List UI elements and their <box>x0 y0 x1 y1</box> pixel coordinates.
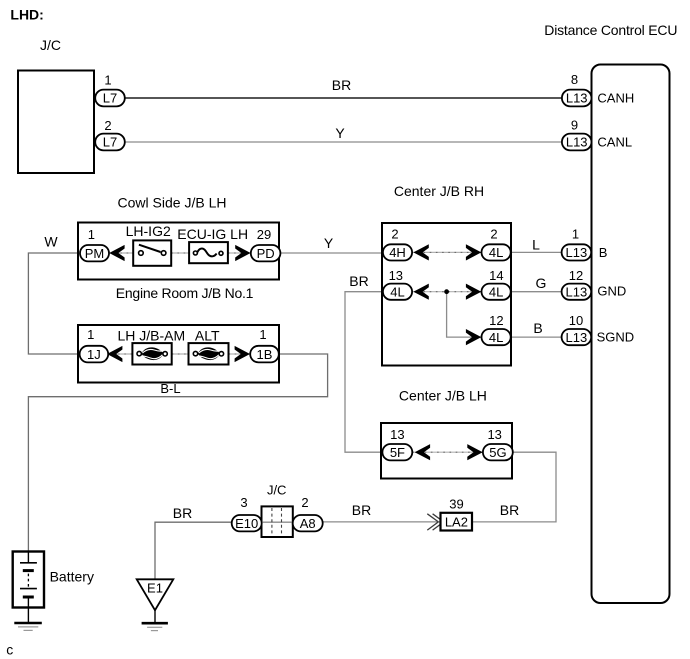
svg-text:E10: E10 <box>235 516 258 531</box>
connector oval L7 pin 2 <box>95 134 125 151</box>
wire G (4L-14 to L13-12 GND) <box>510 291 563 293</box>
svg-text:CANL: CANL <box>597 135 632 150</box>
svg-text:13: 13 <box>389 268 403 283</box>
wire branch to 4L-12 <box>447 292 483 337</box>
svg-text:L: L <box>532 237 540 253</box>
arrow right row2 Center J/B RH <box>466 284 481 300</box>
svg-text:13: 13 <box>390 427 404 442</box>
connector oval L13 pin 9 <box>562 134 592 151</box>
connector oval 1J <box>80 346 109 363</box>
arrow left Center J/B LH <box>415 444 430 460</box>
connector oval A8 <box>293 515 323 531</box>
connector oval 5F <box>382 444 412 460</box>
svg-text:4L: 4L <box>489 285 503 300</box>
svg-text:12: 12 <box>489 313 503 328</box>
connector oval 4H pin 2 <box>383 244 412 260</box>
dashed wire inside Center J/B RH row 1 <box>411 251 482 253</box>
connector oval L13 pin 12 <box>562 284 592 300</box>
box Distance Control ECU <box>592 65 670 604</box>
svg-text:PD: PD <box>257 246 275 261</box>
wire BR (L7-1 to L13-8 CANH) <box>124 97 562 99</box>
wire Y (L7-2 to L13-9 CANL) <box>124 141 562 143</box>
svg-text:B-L: B-L <box>160 381 180 396</box>
svg-text:LHD:: LHD: <box>10 7 43 23</box>
box J/C top left <box>18 71 94 174</box>
svg-text:4L: 4L <box>390 285 404 300</box>
connector oval 4L pin 2 <box>482 244 511 260</box>
svg-text:L13: L13 <box>566 135 588 150</box>
wire (A8 to E10 through J/C) <box>233 521 322 523</box>
switch symbol LH-IG2 <box>133 240 171 265</box>
svg-text:J/C: J/C <box>40 37 61 53</box>
arrow right row1 Center J/B RH <box>466 244 481 260</box>
box Cowl Side J/B LH <box>78 223 279 280</box>
wire B-L (1B loop to battery) <box>28 354 327 552</box>
svg-text:1: 1 <box>259 327 266 342</box>
wire BR (4L-13 to 5F) <box>345 292 384 453</box>
svg-text:LA2: LA2 <box>445 515 468 530</box>
arrow left row2 Center J/B RH <box>413 284 428 300</box>
svg-text:9: 9 <box>571 118 578 133</box>
svg-text:2: 2 <box>391 227 398 242</box>
svg-text:c: c <box>6 641 13 657</box>
svg-text:BR: BR <box>500 502 519 518</box>
svg-text:12: 12 <box>569 268 583 283</box>
arrow right Center J/B LH <box>467 444 482 460</box>
connector oval L13 pin 8 <box>562 90 592 107</box>
svg-text:BR: BR <box>349 273 368 289</box>
svg-text:2: 2 <box>490 227 497 242</box>
arrow right row3 Center J/B RH <box>466 329 481 345</box>
svg-text:1: 1 <box>572 227 579 242</box>
svg-text:4H: 4H <box>389 245 406 260</box>
svg-text:Battery: Battery <box>50 569 94 585</box>
connector oval L13 pin 10 <box>562 329 592 345</box>
svg-text:CANH: CANH <box>597 91 634 106</box>
dashed wire inside Engine Room J/B <box>106 353 251 355</box>
connector oval 5G <box>483 444 513 460</box>
svg-text:L13: L13 <box>566 330 588 345</box>
connector oval 4L pin 14 <box>482 284 511 300</box>
connector oval L13 pin 1 <box>562 244 592 260</box>
svg-text:2: 2 <box>301 495 308 510</box>
svg-text:L13: L13 <box>566 285 588 300</box>
svg-text:Center J/B RH: Center J/B RH <box>394 183 484 199</box>
svg-text:13: 13 <box>487 427 501 442</box>
svg-text:4L: 4L <box>489 330 503 345</box>
svg-text:B: B <box>599 245 608 260</box>
arrow right before PD <box>235 245 250 261</box>
box Center J/B LH <box>381 423 512 479</box>
svg-text:L7: L7 <box>103 135 117 150</box>
svg-text:3: 3 <box>240 495 247 510</box>
svg-text:1: 1 <box>87 327 94 342</box>
svg-text:5G: 5G <box>489 445 506 460</box>
junction dot <box>444 289 449 294</box>
svg-text:BR: BR <box>332 77 351 93</box>
svg-text:29: 29 <box>257 227 271 242</box>
fusible link symbol LH J/B-AM <box>132 343 171 364</box>
svg-text:Y: Y <box>324 235 334 251</box>
arrow right before 1B <box>235 346 250 362</box>
box Center J/B RH <box>382 223 511 366</box>
svg-text:GND: GND <box>597 283 626 298</box>
wire Y (PD to 4H) <box>280 252 384 254</box>
connector oval E10 <box>232 515 262 531</box>
connector box LA2 <box>441 513 473 531</box>
arrow left after 1J <box>107 346 122 362</box>
svg-text:1B: 1B <box>257 347 273 362</box>
svg-text:LH J/B-AM: LH J/B-AM <box>117 327 185 343</box>
svg-text:A8: A8 <box>300 516 316 531</box>
svg-text:8: 8 <box>571 72 578 87</box>
connector oval 1B <box>250 346 279 363</box>
connector oval L7 pin 1 <box>95 90 125 107</box>
svg-text:Y: Y <box>335 125 345 141</box>
dashed wire inside Center J/B LH <box>412 451 484 453</box>
arrow left row1 Center J/B RH <box>413 244 428 260</box>
svg-text:4L: 4L <box>489 245 503 260</box>
wire (5G to LA2 right side) <box>472 452 556 522</box>
wire L (4L-2 to L13-1 B) <box>510 251 563 253</box>
wire W (PM to 1J via left vertical) <box>28 253 81 354</box>
svg-text:ALT: ALT <box>195 327 220 343</box>
svg-text:Engine Room J/B No.1: Engine Room J/B No.1 <box>116 285 254 301</box>
arrow left after PM <box>109 245 124 261</box>
svg-text:Distance Control ECU: Distance Control ECU <box>544 22 677 38</box>
connector oval 4L pin 12 <box>482 329 511 345</box>
svg-text:10: 10 <box>569 313 583 328</box>
svg-text:L13: L13 <box>566 245 588 260</box>
svg-text:PM: PM <box>85 246 105 261</box>
fusible link symbol ALT <box>189 343 229 364</box>
svg-text:1: 1 <box>104 73 111 88</box>
svg-text:Cowl Side J/B LH: Cowl Side J/B LH <box>118 195 227 211</box>
svg-text:ECU-IG LH: ECU-IG LH <box>177 226 248 242</box>
dashed wire inside Center J/B RH row 2 <box>411 291 482 293</box>
svg-text:E1: E1 <box>147 580 163 595</box>
svg-text:J/C: J/C <box>267 482 287 497</box>
battery <box>13 552 44 623</box>
wire BR (LA2 to A8) <box>322 521 441 523</box>
wire B (4L-12 to L13-10 SGND) <box>510 336 563 338</box>
svg-text:SGND: SGND <box>597 330 635 345</box>
svg-text:G: G <box>536 275 547 291</box>
svg-text:5F: 5F <box>390 445 405 460</box>
fuse symbol ECU-IG LH <box>189 242 228 263</box>
svg-text:L7: L7 <box>103 91 117 106</box>
svg-text:LH-IG2: LH-IG2 <box>126 223 171 239</box>
connector oval PD <box>251 245 281 261</box>
svg-text:W: W <box>44 233 58 249</box>
box Engine Room J/B No.1 <box>78 325 279 383</box>
dashed wire inside Cowl Side J/B <box>108 252 251 254</box>
svg-text:BR: BR <box>173 505 192 521</box>
svg-text:39: 39 <box>449 497 463 512</box>
svg-text:L13: L13 <box>566 91 588 106</box>
junction connector box J/C bottom <box>262 506 293 537</box>
connector oval 4L pin 13 <box>383 284 412 300</box>
svg-text:B: B <box>533 320 542 336</box>
svg-text:2: 2 <box>104 118 111 133</box>
svg-text:14: 14 <box>489 268 503 283</box>
wire BR (E10 to E1 ground) <box>155 522 233 580</box>
connector oval PM <box>80 245 109 261</box>
svg-text:1J: 1J <box>87 347 101 362</box>
battery ground <box>14 623 42 630</box>
svg-text:BR: BR <box>352 502 371 518</box>
double chevron before LA2 <box>427 514 443 530</box>
ground triangle E1 <box>137 579 174 630</box>
svg-text:1: 1 <box>88 227 95 242</box>
svg-text:Center J/B LH: Center J/B LH <box>399 388 487 404</box>
